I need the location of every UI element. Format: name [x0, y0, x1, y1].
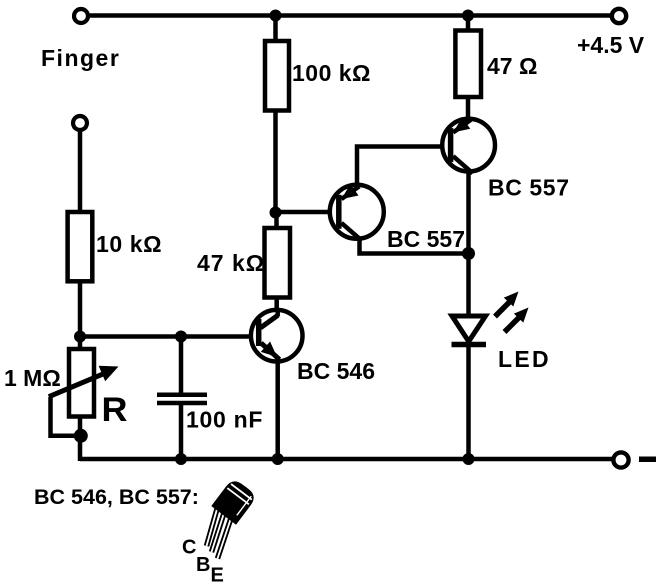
node B junction dot: [270, 207, 282, 219]
svg-text:C: C: [182, 537, 196, 559]
potentiometer wiper return wire: [51, 397, 81, 436]
wire Q1 collector to LED branch: [360, 237, 469, 254]
terminal negative bottom-right: [613, 452, 628, 467]
node bottom rail capacitor dot: [175, 453, 187, 465]
resistor 47k with leads: [265, 212, 291, 312]
node A junction dot: [74, 331, 86, 343]
transistor Q1 BC557 pnp: [330, 184, 384, 240]
wire node A to Q3 base: [80, 334, 261, 339]
svg-text:BC 557: BC 557: [488, 175, 570, 201]
node capacitor top junction dot: [175, 331, 187, 343]
svg-text:47 Ω: 47 Ω: [487, 53, 537, 79]
svg-text:100 kΩ: 100 kΩ: [292, 60, 371, 86]
svg-text:BC 557: BC 557: [387, 226, 465, 252]
wire pot to bottom rail: [78, 417, 83, 462]
node junction top of 100k: [270, 10, 282, 22]
transistor package TO-92 drawing: [207, 479, 257, 559]
terminal +4.5V top-right: [612, 9, 626, 23]
label BC 557 first: [387, 226, 465, 252]
label LED: [498, 346, 551, 372]
label BC 546: [297, 358, 375, 384]
wire LED cathode to bottom rail: [466, 346, 471, 459]
svg-text:BC 546: BC 546: [297, 358, 375, 384]
wire bottom rail: [80, 457, 612, 462]
node pot bottom junction dot: [74, 429, 88, 443]
node collector junction dot: [462, 247, 475, 260]
svg-text:10 kΩ: 10 kΩ: [96, 231, 162, 257]
label BC 546, BC 557:: [34, 485, 199, 509]
svg-text:+4.5 V: +4.5 V: [577, 32, 645, 58]
label 1 MOhm: [4, 365, 61, 391]
wire Q3 emitter to bottom rail: [275, 360, 280, 459]
wire lower electrode to 10k: [78, 130, 83, 214]
LED D1: [452, 316, 487, 345]
svg-text:B: B: [196, 554, 210, 576]
svg-text:E: E: [211, 565, 224, 587]
label +4.5 V: [577, 32, 645, 58]
label 47 Ohm: [487, 53, 537, 79]
label Finger: [41, 45, 120, 71]
label pin C: [182, 537, 196, 559]
svg-text:1 MΩ: 1 MΩ: [4, 365, 61, 391]
wire top supply rail: [88, 13, 611, 18]
svg-text:100 nF: 100 nF: [186, 407, 263, 433]
wire junction to LED anode: [466, 254, 471, 319]
LED light arrow 1: [495, 292, 519, 317]
label BC 557 second: [488, 175, 570, 201]
potentiometer R body 1M: [69, 349, 94, 417]
resistor 100k with leads: [265, 15, 289, 214]
svg-text:Finger: Finger: [41, 45, 120, 71]
label 100 nF: [186, 407, 263, 433]
label pin B: [196, 554, 210, 576]
transistor Q3 BC546 npn: [251, 309, 303, 362]
node junction top of 47R: [462, 10, 474, 22]
label pin E: [211, 565, 224, 587]
label R: [102, 391, 128, 429]
svg-text:47 kΩ: 47 kΩ: [197, 250, 265, 276]
svg-text:BC 546, BC 557:: BC 546, BC 557:: [34, 485, 199, 509]
wire Q1 emitter to Q2 base: [357, 147, 450, 189]
label 10 kOhm: [96, 231, 162, 257]
transistor Q2 BC557 pnp: [442, 117, 495, 173]
label 47 kOhm: [197, 250, 265, 276]
negative terminal dash: [639, 457, 656, 463]
wire Q2 collector down to junction: [466, 170, 471, 254]
resistor 10k: [68, 212, 93, 281]
node bottom rail LED dot: [463, 453, 475, 465]
label 100 kOhm: [292, 60, 371, 86]
svg-text:LED: LED: [498, 346, 551, 372]
capacitor C1 100nF: [157, 334, 207, 461]
wire node B to Q1 base: [276, 210, 341, 215]
wire 10k to node A: [78, 281, 83, 351]
svg-text:R: R: [102, 391, 128, 429]
terminal finger electrode top-left: [74, 9, 88, 23]
node bottom rail emitter dot: [272, 453, 284, 465]
LED light arrow 2: [505, 308, 529, 333]
potentiometer wiper arrow: [49, 366, 119, 397]
terminal finger electrode lower: [73, 116, 87, 130]
resistor 47R with leads: [455, 15, 481, 121]
